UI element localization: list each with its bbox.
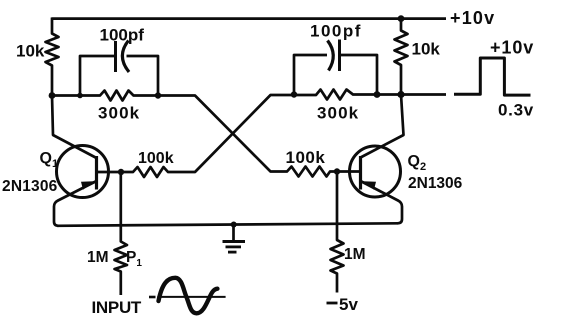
svg-text:+10v: +10v	[490, 38, 534, 58]
svg-text:INPUT: INPUT	[92, 298, 142, 317]
svg-text:5v: 5v	[339, 295, 358, 314]
svg-text:Q2: Q2	[408, 153, 427, 173]
svg-text:P1: P1	[126, 249, 142, 269]
svg-text:300k: 300k	[317, 104, 359, 123]
svg-text:0.3v: 0.3v	[498, 101, 534, 120]
svg-text:2N1306: 2N1306	[408, 175, 463, 192]
svg-text:10k: 10k	[16, 42, 45, 61]
svg-text:300k: 300k	[98, 104, 140, 123]
svg-text:10k: 10k	[412, 40, 441, 59]
svg-text:1M: 1M	[344, 246, 366, 263]
svg-text:100k: 100k	[138, 150, 174, 167]
svg-text:1M: 1M	[87, 249, 109, 266]
svg-text:100pf: 100pf	[100, 26, 145, 45]
svg-text:100pf: 100pf	[310, 22, 362, 41]
svg-text:+10v: +10v	[450, 8, 495, 28]
svg-text:2N1306: 2N1306	[2, 178, 58, 195]
svg-text:100k: 100k	[286, 148, 326, 167]
svg-text:Q1: Q1	[40, 150, 59, 170]
